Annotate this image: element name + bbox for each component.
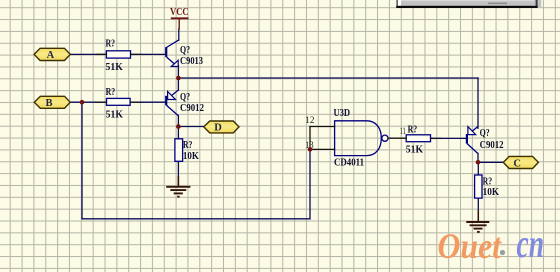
svg-text:A: A (47, 50, 55, 61)
svg-text:C9013: C9013 (180, 56, 203, 67)
svg-text:VCC: VCC (170, 7, 189, 18)
svg-text:R?: R? (183, 140, 193, 151)
svg-text:Q?: Q? (180, 92, 190, 103)
svg-text:R?: R? (106, 39, 116, 50)
svg-text:11: 11 (400, 127, 406, 137)
svg-text:U3D: U3D (334, 108, 351, 119)
svg-text:B: B (45, 98, 52, 109)
svg-text:Ouet: Ouet (438, 226, 502, 266)
svg-text:51K: 51K (406, 144, 424, 155)
svg-text:Q?: Q? (480, 128, 490, 139)
svg-text:C9012: C9012 (180, 103, 204, 114)
svg-text:R?: R? (106, 87, 116, 98)
svg-text:10K: 10K (183, 151, 200, 162)
svg-text:51K: 51K (106, 62, 124, 73)
svg-text:Q?: Q? (180, 45, 190, 56)
svg-text:51K: 51K (106, 110, 124, 121)
svg-text:CD4011: CD4011 (334, 158, 364, 169)
svg-text:D: D (214, 123, 222, 134)
svg-text:R?: R? (483, 177, 493, 188)
svg-text:12: 12 (305, 116, 314, 126)
svg-text:10K: 10K (483, 187, 500, 198)
svg-text:cn: cn (517, 221, 545, 266)
svg-text:R?: R? (408, 124, 418, 135)
svg-text:C9012: C9012 (480, 140, 504, 151)
svg-text:C: C (513, 158, 521, 169)
